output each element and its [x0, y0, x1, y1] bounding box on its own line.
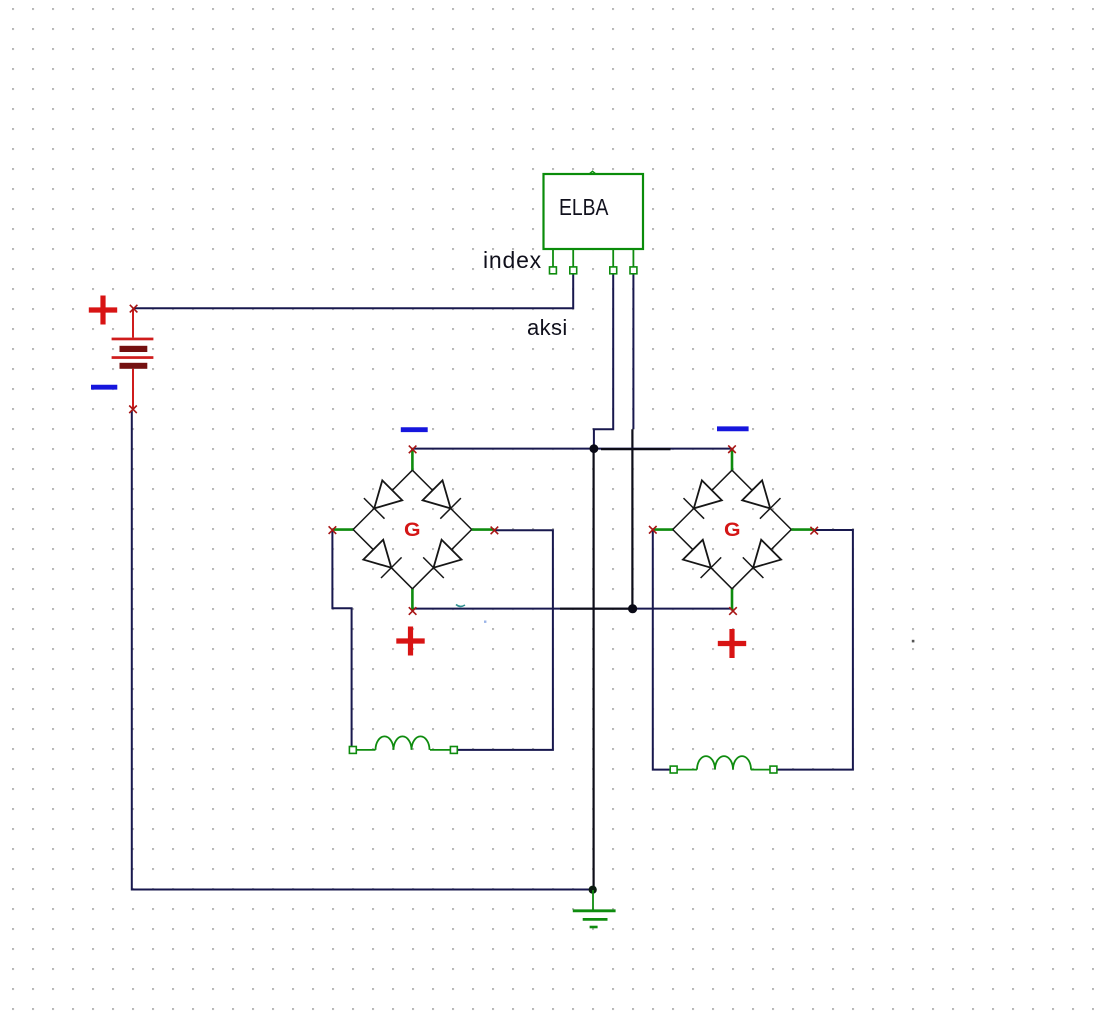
- wire bottom bus black overdraw: [560, 608, 632, 610]
- right bridge green stub top: [731, 449, 734, 471]
- battery B1 positive lead: [132, 310, 134, 338]
- wire left bridge AC2 loop to coil L1: [458, 530, 553, 750]
- wire pin3 to top bus junction: [594, 273, 613, 449]
- bridge BR1 diode D4 lower-right: [412, 530, 471, 589]
- battery B1 negative lead: [132, 369, 134, 409]
- label G right bridge: [724, 521, 741, 540]
- label ELBA: [559, 196, 608, 219]
- wire top bus between bridge minus terminals: [412, 448, 732, 450]
- U1 pin 1: [550, 249, 557, 274]
- junction node ground: [589, 886, 597, 894]
- artifact blue speck: [484, 621, 486, 623]
- ground symbol: [573, 890, 616, 927]
- battery minus polarity mark: [91, 385, 117, 390]
- terminal x right bridge bottom: [729, 607, 737, 615]
- left bridge minus label: [401, 427, 428, 432]
- right bridge plus label: [718, 629, 746, 658]
- artifact gray speck: [912, 640, 915, 643]
- coil L1 winding: [357, 736, 451, 750]
- U1 pin 3: [610, 249, 617, 274]
- terminal x left bridge bottom: [409, 607, 417, 615]
- terminal x left bridge top: [409, 446, 417, 454]
- coil L2 winding: [677, 756, 769, 770]
- coil L2 left terminal: [670, 766, 677, 773]
- terminal x left bridge right: [491, 527, 499, 535]
- terminal x left bridge left: [329, 526, 337, 534]
- left bridge green stub right: [472, 528, 495, 531]
- wire pin4 lower segment: [631, 429, 633, 608]
- terminal x battery minus: [129, 406, 137, 414]
- label aksi: [527, 317, 568, 339]
- coil L2 right terminal: [770, 766, 777, 773]
- wire pin2 to battery plus: [134, 273, 573, 308]
- right bridge minus label: [717, 426, 749, 431]
- wire right bridge AC2 loop to coil L2: [778, 530, 853, 770]
- bridge BR2 diode D3 lower-left: [673, 530, 732, 589]
- IC box U1 ELBA outline: [544, 171, 644, 249]
- terminal x right bridge top: [728, 445, 736, 453]
- left bridge plus label: [396, 627, 424, 656]
- left bridge green stub top: [411, 449, 414, 471]
- terminal x right bridge right: [810, 527, 818, 535]
- terminal x battery plus: [130, 305, 138, 313]
- bridge BR2 diode D2 upper-right: [732, 470, 791, 529]
- wire bottom bus between bridge plus terminals: [413, 608, 734, 610]
- label G left bridge: [404, 521, 421, 540]
- battery B1 plate long 2: [112, 356, 154, 359]
- wire battery minus to ground: [132, 411, 593, 890]
- right bridge green stub right: [791, 528, 814, 531]
- battery B1 plate short 1: [120, 346, 148, 352]
- artifact teal scribble: [456, 605, 465, 607]
- battery B1 plate long 1: [112, 338, 154, 341]
- right bridge green stub bottom: [731, 589, 734, 611]
- bridge BR2 diode D1 upper-left: [673, 470, 732, 529]
- junction node bottom bus: [628, 604, 637, 613]
- left bridge green stub left: [332, 528, 353, 531]
- battery B1 plate short 2: [120, 363, 148, 369]
- U1 pin 4: [630, 249, 637, 274]
- wire top bus black overdraw: [601, 448, 671, 450]
- bridge BR2 diode D4 lower-right: [732, 530, 791, 589]
- label index: [483, 249, 542, 272]
- terminal x right bridge left: [649, 526, 657, 534]
- bridge BR1 diode D2 upper-right: [412, 470, 471, 529]
- battery plus polarity mark: [89, 296, 117, 325]
- junction node top bus: [590, 444, 599, 453]
- wire pin4 upper segment: [632, 273, 634, 429]
- coil L1 left terminal: [349, 747, 356, 754]
- bridge BR1 diode D1 upper-left: [353, 470, 412, 529]
- wire ground drop: [592, 449, 594, 890]
- left bridge green stub bottom: [411, 589, 414, 611]
- coil L1 right terminal: [450, 747, 457, 754]
- wire left bridge AC1 loop to coil L1: [332, 531, 351, 746]
- wire right bridge AC1 loop to coil L2: [653, 531, 670, 770]
- right bridge green stub left: [653, 528, 673, 531]
- bridge BR1 diode D3 lower-left: [353, 530, 412, 589]
- U1 pin 2: [570, 249, 577, 274]
